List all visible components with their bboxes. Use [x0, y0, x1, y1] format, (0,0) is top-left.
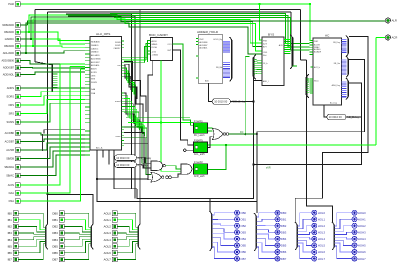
- svg-text:DB/ADD: DB/ADD: [4, 30, 14, 34]
- bus entry HOL group: [296, 225, 298, 247]
- node HOH2: [352, 223, 366, 228]
- svg-text:ADD/SB7: ADD/SB7: [91, 61, 100, 64]
- svg-text:ADD/ADL: ADD/ADL: [3, 73, 15, 77]
- BYS left pins bus group: [261, 60, 263, 73]
- svg-text:AC/ADH: AC/ADH: [314, 50, 322, 53]
- node input dot: [183, 149, 186, 152]
- svg-text:SB_b: SB_b: [314, 81, 319, 83]
- node AC/DB7: [5, 139, 20, 144]
- delay element AC_Delay: [327, 114, 360, 120]
- svg-text:SRS: SRS: [91, 79, 96, 81]
- node IB6: [8, 250, 19, 255]
- bus entry DB group: [255, 216, 257, 248]
- node ANDS: [7, 86, 20, 91]
- wire black top-left corner down: [34, 10, 36, 62]
- bus entry BYS left: [253, 58, 255, 77]
- svg-text:SfvL: SfvL: [263, 55, 267, 57]
- svg-text:AOL2: AOL2: [104, 225, 112, 229]
- bus entry DB group: [90, 227, 92, 247]
- svg-text:+LVD: +LVD: [152, 51, 157, 53]
- svg-text:ADD/SB7: ADD/SB7: [3, 66, 15, 70]
- delay element ADD_Delay: [212, 99, 246, 105]
- wire AVR output to ACR track: [208, 145, 227, 170]
- svg-text:OB1: OB1: [240, 217, 246, 221]
- svg-text:IB3: IB3: [8, 231, 13, 235]
- svg-text:DB4: DB4: [52, 238, 58, 242]
- bus entry IB group: [45, 227, 47, 247]
- svg-text:HOH1: HOH1: [358, 217, 366, 221]
- wire ac control input: [20, 151, 85, 167]
- wire net loop1 to blue group3: [295, 36, 368, 222]
- node HOL4: [312, 236, 326, 241]
- wire ac control input: [20, 139, 85, 142]
- svg-text:DB0: DB0: [281, 211, 287, 215]
- node DB1: [52, 217, 64, 222]
- svg-text:DB6: DB6: [52, 251, 58, 255]
- wire green bus b: [20, 17, 262, 47]
- svg-text:HOLD_By: HOLD_By: [213, 39, 222, 41]
- gate NOR U2: [151, 173, 164, 183]
- wire ADDER_HOLD bottom to ADD delay: [209, 83, 213, 101]
- wire alu op input: [20, 92, 85, 97]
- svg-text:aVR: aVR: [266, 166, 271, 169]
- svg-text:HOH0: HOH0: [358, 211, 366, 215]
- svg-text:EORS: EORS: [7, 95, 15, 99]
- AC left pins top: [311, 40, 313, 42]
- wire bundle ALU group2 down: [124, 93, 134, 124]
- node ACR: [385, 35, 397, 40]
- wire green mid horizontal upper: [126, 117, 190, 119]
- node OB2: [235, 223, 247, 228]
- svg-text:OB6: OB6: [240, 250, 246, 254]
- node HOL3: [312, 230, 326, 235]
- svg-text:IB5: IB5: [8, 244, 13, 248]
- node IB3: [8, 231, 19, 236]
- bus entry AOL group: [137, 227, 139, 247]
- wire fan DB group: [256, 213, 275, 217]
- svg-text:mxor: mxor: [116, 135, 121, 138]
- wire bundle ALU group1 descend: [124, 65, 131, 90]
- gate NAND U1: [151, 161, 165, 171]
- IC block AC: [313, 33, 342, 105]
- node HOH7: [352, 256, 366, 261]
- wire fan AOL group: [117, 213, 138, 227]
- BYS right pins: [284, 39, 291, 41]
- svg-text:HOL0: HOL0: [318, 211, 326, 215]
- dark cluster bar: [42, 134, 44, 151]
- wire stub ALU bottom pin to net G: [113, 150, 115, 189]
- wire ACIN: [20, 64, 85, 185]
- svg-text:AOL7: AOL7: [104, 258, 112, 262]
- svg-text:ADL/ADD: ADL/ADD: [3, 51, 14, 55]
- svg-text:DB7: DB7: [281, 257, 287, 261]
- node AC/SB: [6, 148, 20, 153]
- svg-text:HOL5: HOL5: [318, 244, 326, 248]
- node IB4: [8, 237, 19, 242]
- ALU_OPS bottom pins: [102, 149, 104, 151]
- node ALR: [385, 18, 396, 23]
- wire feed blue group1: [209, 199, 211, 211]
- node DB/ADD: [4, 44, 20, 49]
- svg-text:1/ADDC: 1/ADDC: [91, 47, 99, 50]
- node ORS: [8, 103, 20, 108]
- node HOL1: [312, 217, 326, 222]
- svg-text:ORS: ORS: [8, 103, 14, 107]
- ALU_OPS left pins mid: [85, 88, 90, 122]
- svg-text:DB3: DB3: [281, 231, 287, 235]
- node HOL0: [312, 210, 326, 215]
- node AC/DB0: [5, 131, 20, 136]
- node AOL6: [104, 250, 118, 255]
- svg-text:HOL1: HOL1: [318, 217, 326, 221]
- svg-text:EORS: EORS: [91, 72, 97, 74]
- svg-text:AOL1: AOL1: [104, 218, 112, 222]
- wire BCD BVT to ACL latch: [173, 50, 194, 145]
- node DB4: [52, 237, 64, 242]
- svg-text:HOH4: HOH4: [358, 237, 366, 241]
- svg-text:SB_Day: SB_Day: [333, 42, 340, 44]
- svg-text:ADD: ADD: [205, 80, 210, 83]
- svg-text:ORS: ORS: [91, 75, 96, 77]
- inverter dots: [166, 176, 169, 179]
- node DB6: [52, 250, 64, 255]
- node HOH0: [352, 210, 366, 215]
- wire long vertical corridor A: [66, 14, 137, 189]
- bus entry BYS right: [292, 38, 294, 67]
- svg-text:DAA: DAA: [9, 191, 15, 195]
- BYS left pin ADD: [260, 80, 263, 82]
- svg-text:CARRY: CARRY: [114, 47, 122, 50]
- svg-text:AC/SB: AC/SB: [6, 148, 14, 152]
- node DB3: [52, 231, 64, 236]
- wire ac control input: [20, 147, 85, 159]
- svg-text:AOL3: AOL3: [104, 231, 112, 235]
- wire alu op input: [20, 87, 85, 89]
- svg-text:SUM1: SUM1: [115, 45, 121, 47]
- svg-text:AC/DB0: AC/DB0: [5, 131, 15, 135]
- svg-text:DB_Sw: DB_Sw: [334, 63, 341, 65]
- svg-text:ADDER_HOLD: ADDER_HOLD: [197, 30, 219, 34]
- node IB2: [8, 224, 19, 229]
- latch 1=setCy: [194, 120, 208, 137]
- node EORS: [7, 94, 20, 99]
- BCD_CARRY right pins: [173, 44, 176, 50]
- svg-text:SUMS: SUMS: [91, 82, 97, 84]
- svg-text:10 0010 00: 10 0010 00: [116, 156, 130, 160]
- AC left pins low group: [310, 79, 313, 93]
- wire fan HOL group: [297, 213, 311, 226]
- wire B delay out to NOR: [137, 165, 152, 168]
- node HOH1: [352, 217, 366, 222]
- wire net top black A: [35, 9, 140, 11]
- wire latch2 out to OR: [208, 137, 213, 148]
- node AOL0: [104, 211, 118, 216]
- wire BYS right bus tail: [293, 65, 298, 67]
- svg-text:mand: mand: [115, 101, 121, 103]
- wire PHI2 bright green top: [20, 4, 313, 41]
- svg-text:SB/ADH: SB/ADH: [4, 165, 14, 169]
- svg-text:IB0: IB0: [8, 211, 13, 215]
- wire net B route (ALU bottom to loop2): [97, 150, 257, 201]
- bus entry AC left low: [306, 77, 308, 95]
- latch 1=getCy: [194, 139, 208, 156]
- node NDB/ADD: [2, 23, 20, 28]
- svg-text:HOH5: HOH5: [358, 244, 366, 248]
- svg-text:DB/ADD: DB/ADD: [91, 44, 99, 47]
- svg-text:SB_Bd: SB_Bd: [216, 67, 222, 69]
- AC left pins group: [310, 43, 314, 55]
- node OB7: [235, 256, 247, 261]
- node AOL2: [104, 224, 118, 229]
- svg-text:1/ADDC: 1/ADDC: [4, 37, 14, 41]
- svg-text:DB2: DB2: [281, 224, 287, 228]
- wire ac control input: [20, 133, 85, 135]
- wire T3 to ALU pin: [29, 32, 85, 41]
- svg-text:PHI2: PHI2: [8, 2, 14, 6]
- svg-text:ADD/ADL: ADD/ADL: [91, 64, 101, 67]
- wire fan IB group: [18, 213, 45, 227]
- node IB1: [8, 217, 19, 222]
- node DB/ADD: [4, 30, 20, 35]
- svg-text:OB7: OB7: [240, 257, 246, 261]
- svg-text:OB0: OB0: [240, 211, 246, 215]
- svg-text:DB4: DB4: [281, 237, 287, 241]
- node AOL7: [104, 257, 118, 262]
- svg-text:OB3: OB3: [240, 231, 246, 235]
- wire net G route (to right loops): [137, 83, 362, 199]
- wire green bus a: [20, 15, 262, 43]
- svg-text:ADD/SB6: ADD/SB6: [199, 41, 207, 44]
- node OB3: [235, 230, 247, 235]
- node IB7: [8, 257, 19, 262]
- wire BCD bottom pin down to AND track: [160, 61, 162, 123]
- svg-text:1=setCy: 1=setCy: [194, 120, 204, 123]
- ALU_OPS right pin group1: [122, 57, 125, 76]
- svg-text:DB6: DB6: [281, 250, 287, 254]
- svg-text:OB2: OB2: [240, 224, 246, 228]
- svg-text:ALU_OPS: ALU_OPS: [96, 32, 110, 36]
- wire bundle ALU group3 to gates: [124, 127, 151, 163]
- wire alu op input: [20, 96, 85, 105]
- svg-text:ALR: ALR: [392, 19, 397, 23]
- svg-text:HOL6: HOL6: [318, 250, 326, 254]
- svg-text:IB1: IB1: [8, 218, 13, 222]
- svg-text:PHI2: PHI2: [314, 41, 318, 43]
- wire NAND out: [165, 166, 181, 169]
- svg-text:IB6: IB6: [8, 251, 13, 255]
- node DB4: [275, 236, 287, 241]
- wire net loop2 to blue group2: [257, 60, 365, 214]
- node DB5: [52, 244, 64, 249]
- svg-text:ADD/SB7: ADD/SB7: [199, 44, 207, 47]
- svg-text:AC2_b: AC2_b: [314, 66, 320, 69]
- wire ACR bright green: [208, 38, 386, 146]
- svg-text:10 0010 00: 10 0010 00: [116, 163, 130, 167]
- node DB0: [275, 210, 287, 215]
- svg-text:HOL4: HOL4: [318, 237, 326, 241]
- wire fan OB group: [212, 213, 235, 215]
- svg-text:SB/AC: SB/AC: [6, 174, 14, 178]
- svg-text:NDB/ADD: NDB/ADD: [91, 41, 101, 44]
- wire ALU delay out to NAND: [137, 158, 152, 164]
- wire grey long vertical: [139, 10, 141, 224]
- svg-text:ADD_l: ADD_l: [263, 80, 269, 83]
- gate AND U3: [181, 164, 192, 174]
- wire fan HOH group: [334, 213, 352, 226]
- IC block BCD_CARRY: [149, 33, 173, 61]
- node IB0: [8, 211, 19, 216]
- node DAA: [9, 191, 20, 196]
- svg-text:ACIN: ACIN: [8, 183, 14, 187]
- svg-text:ACL_at25: ACL_at25: [194, 153, 205, 156]
- svg-text:ACD: ACD: [279, 44, 284, 47]
- svg-text:HOH7: HOH7: [358, 257, 366, 261]
- node AOL5: [104, 244, 118, 249]
- svg-text:BCD_CARRY: BCD_CARRY: [149, 33, 168, 37]
- node ADD/ADL: [3, 72, 20, 77]
- IC block ADDER_HOLD: [197, 30, 223, 83]
- svg-text:DAA: DAA: [91, 88, 96, 91]
- wire fan DB group: [64, 213, 91, 227]
- wire OR out: [229, 133, 257, 135]
- wire AC delay out: [346, 116, 362, 118]
- bus entry AC right 3: [347, 81, 349, 97]
- node DB7: [52, 257, 64, 262]
- svg-text:ADH_Day: ADH_Day: [332, 84, 340, 87]
- node SB/AC: [6, 173, 20, 178]
- mini bus bar feeding ALU low pins: [35, 62, 52, 65]
- ALU_OPS left pins low: [85, 131, 90, 155]
- node OB6: [235, 250, 247, 255]
- wire fan AC low: [307, 78, 310, 80]
- node DSA: [9, 199, 20, 204]
- node SUMS: [7, 120, 21, 125]
- svg-text:RLOA: RLOA: [152, 46, 158, 49]
- wire ADD delay to BYS: [230, 81, 262, 102]
- BYS left pins top: [261, 40, 263, 54]
- ALU_OPS right single pins: [122, 41, 125, 47]
- node OB5: [235, 243, 247, 248]
- svg-text:PHI2: PHI2: [199, 39, 203, 41]
- svg-text:OB4: OB4: [240, 237, 246, 241]
- node AOL1: [104, 217, 118, 222]
- svg-text:AOL4: AOL4: [104, 238, 112, 242]
- node OB4: [235, 236, 247, 241]
- node HOH5: [352, 243, 366, 248]
- wire feed left group2: [48, 194, 94, 223]
- wire ac control input: [20, 143, 85, 150]
- wire green to AND gate input: [161, 123, 181, 172]
- wire ADD/ADL: [20, 72, 85, 75]
- svg-text:DC: DC: [240, 131, 244, 134]
- ALU_OPS left pins upper: [85, 41, 90, 85]
- wire T6 to ALU pin: [26, 51, 85, 53]
- svg-text:ADD8: ADD8: [152, 40, 157, 43]
- node ADL/ADD: [3, 51, 20, 56]
- bus entry AC right 1: [347, 39, 349, 54]
- svg-text:ACR: ACR: [392, 36, 398, 40]
- node 1/ADDC: [4, 37, 20, 42]
- wire T4 to ALU pin: [31, 39, 85, 44]
- svg-text:OVfL: OVfL: [263, 52, 267, 54]
- svg-text:SUM0: SUM0: [115, 42, 121, 44]
- node ACIN: [8, 183, 20, 188]
- svg-text:AOL5: AOL5: [104, 244, 112, 248]
- svg-text:AC_Day: AC_Day: [330, 102, 337, 105]
- svg-text:HOL2: HOL2: [318, 224, 326, 228]
- svg-text:DB3: DB3: [52, 231, 58, 235]
- svg-text:DB/ADD: DB/ADD: [4, 44, 14, 48]
- svg-text:AOL0: AOL0: [104, 211, 112, 215]
- svg-text:DC_Latch: DC_Latch: [194, 134, 205, 137]
- svg-text:AC_Delay: AC_Delay: [347, 115, 360, 119]
- node HOH4: [352, 236, 366, 241]
- svg-text:AOL6: AOL6: [104, 251, 112, 255]
- wire PHI2 branch to BYS: [260, 4, 263, 40]
- IC block ALU_OPS: [90, 32, 122, 150]
- svg-text:BYS: BYS: [268, 32, 274, 36]
- svg-text:DB5: DB5: [281, 244, 287, 248]
- svg-text:SUMS: SUMS: [7, 120, 15, 124]
- svg-text:HOL3: HOL3: [318, 231, 326, 235]
- node DB1: [275, 217, 287, 222]
- wire net AC low bus to blue group4: [307, 95, 333, 222]
- svg-text:+OAND: +OAND: [152, 53, 159, 56]
- svg-text:ADD/ADL: ADD/ADL: [199, 47, 207, 50]
- svg-text:ADD_Delay: ADD_Delay: [231, 100, 246, 104]
- svg-text:ANDS: ANDS: [91, 68, 97, 71]
- svg-text:DB2: DB2: [52, 225, 58, 229]
- svg-text:1=setAV: 1=setAV: [194, 161, 203, 164]
- node ADD/SB7: [3, 65, 20, 70]
- node PHI2: [8, 2, 20, 7]
- node OB0: [235, 210, 247, 215]
- svg-text:IB2: IB2: [8, 225, 13, 229]
- svg-text:AC: AC: [325, 33, 330, 37]
- node DB3: [275, 230, 287, 235]
- node IB5: [8, 244, 19, 249]
- svg-text:DB1: DB1: [281, 217, 287, 221]
- node HOH6: [352, 250, 366, 255]
- wire bundle ALU group1 up to BCD: [124, 57, 148, 62]
- node HOL7: [312, 256, 326, 261]
- IC block BYS: [262, 32, 284, 85]
- svg-text:ADD/SB06: ADD/SB06: [1, 59, 14, 63]
- wire green feeds to AC left pins: [110, 14, 310, 51]
- svg-text:10 0010 00: 10 0010 00: [214, 100, 228, 104]
- bus entry AC right 2: [347, 59, 349, 75]
- wire ADD/SB7: [20, 67, 85, 70]
- wire NOR out: [171, 174, 181, 177]
- node SB/ADH: [4, 165, 20, 170]
- bus entry ADDER_HOLD right: [231, 40, 233, 79]
- node OB1: [235, 217, 247, 222]
- svg-text:SB/DB: SB/DB: [6, 157, 14, 161]
- svg-text:ADD/SB06: ADD/SB06: [91, 57, 102, 60]
- node DB2: [52, 224, 64, 229]
- node SB/DB: [6, 156, 20, 161]
- AC left pin mid: [311, 66, 314, 68]
- node ADD/SB06: [1, 58, 20, 63]
- svg-text:DB1: DB1: [52, 218, 58, 222]
- wire green bus c: [20, 19, 262, 51]
- delay element B_Delay: [115, 162, 149, 168]
- ALU_OPS right pin group3: [122, 127, 125, 146]
- wire black staircase mid: [124, 62, 146, 113]
- svg-text:DSA: DSA: [91, 92, 96, 95]
- node HOL6: [312, 250, 326, 255]
- wire BCD left feeds: [145, 41, 151, 63]
